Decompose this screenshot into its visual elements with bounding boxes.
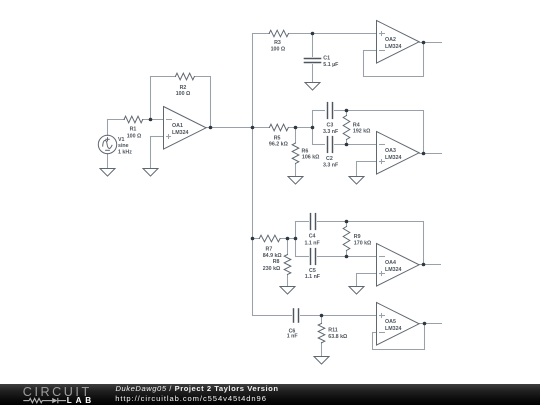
svg-text:106 kΩ: 106 kΩ (302, 155, 320, 161)
svg-text:R2: R2 (180, 85, 187, 91)
svg-text:170 kΩ: 170 kΩ (354, 241, 372, 247)
svg-text:R7: R7 (266, 247, 273, 253)
svg-text:C1: C1 (323, 55, 330, 61)
svg-text:C2: C2 (326, 156, 333, 162)
svg-text:100 Ω: 100 Ω (271, 47, 286, 53)
svg-text:100 Ω: 100 Ω (176, 91, 191, 97)
svg-text:R8: R8 (273, 259, 280, 265)
svg-text:3.3 nF: 3.3 nF (323, 163, 339, 169)
svg-text:C4: C4 (309, 234, 316, 240)
svg-text:1 kHz: 1 kHz (118, 149, 132, 155)
svg-text:C3: C3 (327, 123, 334, 129)
svg-text:LM324: LM324 (385, 326, 402, 332)
svg-text:230 kΩ: 230 kΩ (263, 266, 281, 272)
svg-text:LM324: LM324 (385, 267, 402, 273)
svg-text:LAB: LAB (67, 396, 95, 405)
svg-text:63.8 kΩ: 63.8 kΩ (328, 334, 348, 340)
svg-text:OA5: OA5 (385, 319, 396, 325)
svg-text:100 Ω: 100 Ω (127, 134, 142, 140)
svg-text:192 kΩ: 192 kΩ (353, 129, 371, 135)
svg-text:3.3 nF: 3.3 nF (323, 129, 339, 135)
svg-text:OA4: OA4 (385, 260, 396, 266)
svg-text:C5: C5 (309, 268, 316, 274)
svg-text:LM324: LM324 (385, 44, 402, 50)
svg-text:R11: R11 (328, 327, 337, 333)
svg-text:R3: R3 (274, 40, 281, 46)
svg-text:OA3: OA3 (385, 148, 396, 154)
svg-text:96.2 kΩ: 96.2 kΩ (269, 141, 289, 147)
svg-text:R9: R9 (354, 234, 361, 240)
svg-text:R1: R1 (130, 126, 137, 132)
svg-text:5.1 µF: 5.1 µF (323, 62, 339, 68)
svg-text:OA2: OA2 (385, 37, 396, 43)
svg-text:1 nF: 1 nF (287, 334, 299, 340)
svg-text:LM324: LM324 (172, 130, 189, 136)
svg-text:1.1 nF: 1.1 nF (304, 240, 320, 246)
svg-text:LM324: LM324 (385, 155, 402, 161)
svg-text:R4: R4 (353, 122, 360, 128)
svg-text:sine: sine (118, 143, 129, 149)
svg-text:OA1: OA1 (172, 123, 183, 129)
svg-text:1.1 nF: 1.1 nF (305, 274, 321, 280)
svg-text:84.9 kΩ: 84.9 kΩ (263, 253, 283, 259)
